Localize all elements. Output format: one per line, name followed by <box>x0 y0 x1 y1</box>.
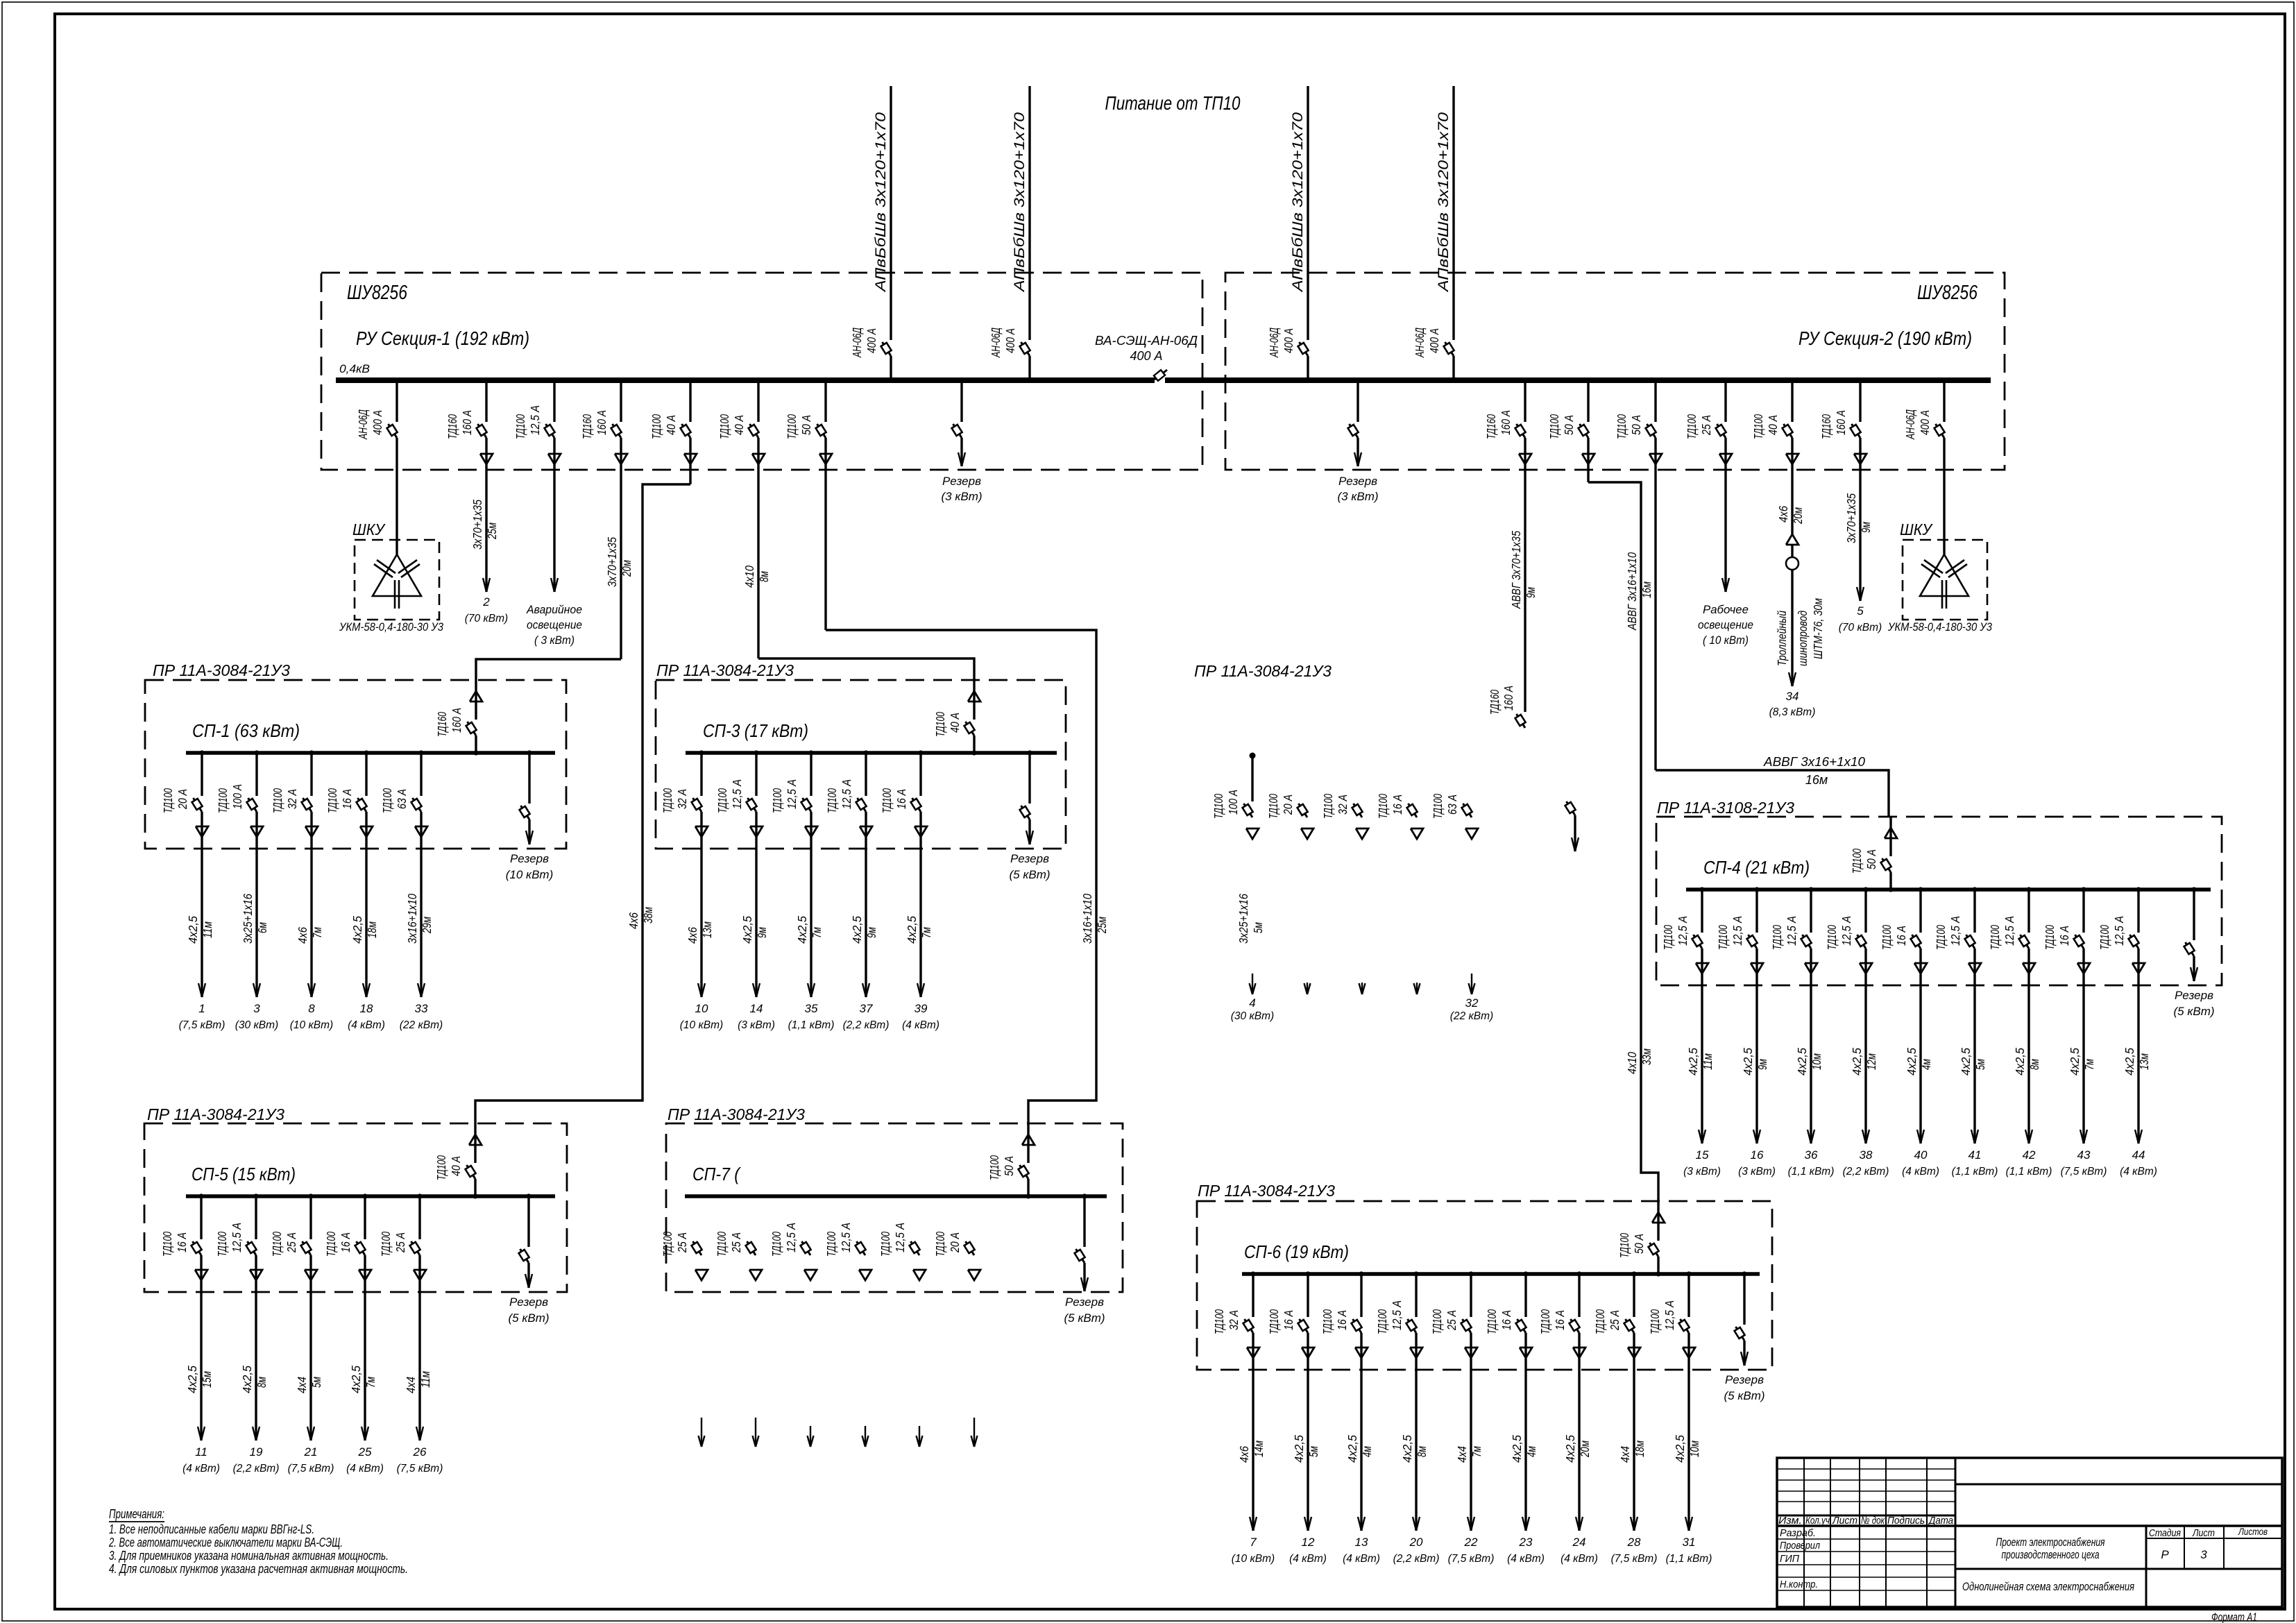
svg-text:4м: 4м <box>1919 1059 1933 1070</box>
feeder breaker ТД100 20 А load 1 СП-1 <box>161 750 208 997</box>
svg-text:12,5 А: 12,5 А <box>1390 1300 1404 1330</box>
svg-text:4х2,5: 4х2,5 <box>1686 1048 1700 1076</box>
feeder breaker ТД100 12,5 А load 38 СП-4 <box>1825 887 1872 1144</box>
svg-text:ТД100: ТД100 <box>880 788 894 813</box>
arrow load 8 <box>290 983 333 1031</box>
feeder breaker ТД100 32 А load 10 СП-3 <box>661 750 708 997</box>
svg-text:(2,2 кВт): (2,2 кВт) <box>1393 1553 1440 1565</box>
svg-text:ВА-СЭЩ-АН-06Д: ВА-СЭЩ-АН-06Д <box>1095 334 1198 348</box>
svg-text:(30 кВт): (30 кВт) <box>235 1019 278 1031</box>
svg-text:11: 11 <box>195 1445 207 1459</box>
svg-text:7м: 7м <box>1470 1446 1483 1457</box>
svg-text:3х70+1х35: 3х70+1х35 <box>1844 493 1858 543</box>
svg-text:4х10: 4х10 <box>1625 1052 1639 1074</box>
label СП-1 (63 кВт) СП-1 <box>192 720 300 741</box>
svg-text:ТД100: ТД100 <box>1648 1309 1662 1334</box>
svg-text:АН-06Д: АН-06Д <box>1267 328 1281 358</box>
svg-text:Резерв: Резерв <box>1338 475 1377 488</box>
wire to СП-1 <box>476 659 621 680</box>
svg-text:4х4: 4х4 <box>1455 1446 1469 1463</box>
cable 3х25+1х16 6м load 3 <box>241 894 269 944</box>
svg-text:ТД100: ТД100 <box>1320 1309 1334 1334</box>
svg-text:АН-06Д: АН-06Д <box>1903 409 1917 440</box>
svg-text:ТД100: ТД100 <box>987 1155 1001 1180</box>
feeder breaker ТД100 25 А load 28 СП-6 <box>1593 1271 1640 1531</box>
cable 4х4 18м load 28 <box>1618 1441 1647 1463</box>
incoming breaker ТД100 50 А СП-6 <box>1617 1201 1665 1277</box>
stub arrow СП-7 <box>862 1426 869 1447</box>
svg-text:40 А: 40 А <box>1766 415 1780 435</box>
cable 4х2,5 5м load 12 <box>1292 1435 1320 1463</box>
arrow load 18 <box>348 983 385 1031</box>
svg-text:400 А: 400 А <box>1427 328 1441 353</box>
cable 4х2,5 12м load 38 <box>1850 1048 1878 1076</box>
incoming breaker АН-06Д 400 А #1 <box>850 328 892 358</box>
svg-text:ТД100: ТД100 <box>1266 794 1280 819</box>
svg-text:4х2,5: 4х2,5 <box>1795 1048 1809 1076</box>
label СП-5 (15 кВт) СП-5 <box>192 1164 296 1184</box>
bus-tie switch ВА-СЭЩ-АН-06Д 400 А <box>1095 334 1198 381</box>
svg-text:СП-7 (: СП-7 ( <box>692 1164 741 1184</box>
arrow load 41 <box>1952 1130 1998 1178</box>
cable 4х6 20м trolley <box>1776 506 1805 525</box>
feeder breaker ТД100 16 А load 43 СП-4 <box>2043 887 2090 1144</box>
svg-text:50 А: 50 А <box>1632 1234 1646 1254</box>
feeder breaker ТД100 16 А load 12 СП-6 <box>1267 1271 1314 1531</box>
svg-text:4х2,5: 4х2,5 <box>186 916 200 944</box>
feeder breaker ТД100 12,5 А load 42 СП-4 <box>1988 887 2035 1144</box>
svg-text:32 А: 32 А <box>285 789 299 809</box>
cable 4х10 8м to СП-3 <box>742 566 771 588</box>
notes Примечания <box>108 1507 408 1576</box>
feeder breaker ТД100 12,5 А load 16 СП-4 <box>1716 887 1763 1144</box>
feeder breaker ТД100 16 А load 18 СП-1 <box>325 750 373 997</box>
svg-text:ТД100: ТД100 <box>1376 794 1390 819</box>
svg-text:ТД100: ТД100 <box>1375 1309 1389 1334</box>
incoming breaker ТД100 40 А СП-5 <box>434 1123 482 1199</box>
svg-text:освещение: освещение <box>1698 618 1753 631</box>
svg-text:25 А: 25 А <box>284 1232 298 1253</box>
cable 4х2,5 7м load 39 <box>905 916 933 944</box>
svg-text:44: 44 <box>2132 1148 2145 1162</box>
svg-text:33: 33 <box>415 1002 428 1015</box>
svg-text:ТД100: ТД100 <box>661 788 674 813</box>
svg-text:ТД160: ТД160 <box>1819 414 1833 439</box>
svg-text:12,5 А: 12,5 А <box>1663 1300 1676 1330</box>
svg-text:(70 кВт): (70 кВт) <box>1839 622 1882 634</box>
svg-text:ТД100: ТД100 <box>825 788 839 813</box>
svg-text:40 А: 40 А <box>664 415 678 435</box>
svg-text:РУ Секция-1 (192 кВт): РУ Секция-1 (192 кВт) <box>356 328 529 349</box>
section2 reserve breaker <box>1337 383 1378 503</box>
arrow load 1 <box>179 983 226 1031</box>
feeder breaker ТД100 25 А load 26 СП-5 <box>379 1193 426 1441</box>
svg-text:ГИП: ГИП <box>1780 1553 1799 1565</box>
svg-text:ТД100: ТД100 <box>1617 1233 1631 1258</box>
svg-text:3. Для приемников указана номи: 3. Для приемников указана номинальная ак… <box>109 1549 389 1563</box>
feeder breaker ТД100 16 А load 13 СП-6 <box>1320 1271 1368 1531</box>
svg-text:(3 кВт): (3 кВт) <box>1337 490 1378 503</box>
svg-text:13м: 13м <box>700 921 714 938</box>
svg-text:25: 25 <box>358 1445 372 1459</box>
svg-text:ПР 11А-3084-21У3: ПР 11А-3084-21У3 <box>1194 662 1332 680</box>
svg-text:ТД100: ТД100 <box>785 414 799 439</box>
svg-text:16 А: 16 А <box>1391 794 1404 815</box>
cable АВВГ 3х70+1х35 9м to СП-2 <box>1509 531 1538 609</box>
svg-text:Резерв: Резерв <box>1010 852 1049 865</box>
svg-text:1: 1 <box>198 1002 205 1015</box>
svg-text:16 А: 16 А <box>175 1232 189 1252</box>
svg-text:ТД100: ТД100 <box>1211 794 1225 819</box>
svg-text:4х2,5: 4х2,5 <box>240 1366 254 1393</box>
svg-text:40 А: 40 А <box>732 415 746 435</box>
svg-text:Резерв: Резерв <box>1065 1295 1104 1309</box>
arrow load 38 <box>1843 1130 1889 1178</box>
svg-text:(4 кВт): (4 кВт) <box>1561 1553 1598 1565</box>
label СП-3 (17 кВт) СП-3 <box>703 720 808 741</box>
svg-text:ТД100: ТД100 <box>1751 414 1765 439</box>
cable 4х10 33м to СП-6 <box>1625 1048 1653 1074</box>
svg-text:12,5 А: 12,5 А <box>2002 916 2016 946</box>
svg-text:50 А: 50 А <box>799 415 813 435</box>
svg-text:ТД100: ТД100 <box>160 1232 174 1257</box>
svg-text:16м: 16м <box>1640 581 1653 598</box>
svg-text:ТД100: ТД100 <box>379 1232 393 1257</box>
svg-text:4х2,5: 4х2,5 <box>185 1366 199 1393</box>
svg-text:АН-06Д: АН-06Д <box>850 328 864 358</box>
cable 4х4 5м load 21 <box>295 1377 323 1393</box>
svg-text:Кол.уч: Кол.уч <box>1805 1515 1830 1527</box>
svg-text:37: 37 <box>860 1002 873 1015</box>
svg-text:21: 21 <box>304 1445 318 1459</box>
section2 feeder breaker ТД100 40 А trolley <box>1751 383 1798 534</box>
svg-text:СП-5 (15 кВт): СП-5 (15 кВт) <box>192 1164 296 1184</box>
svg-text:ТД100: ТД100 <box>380 788 394 813</box>
svg-text:12,5 А: 12,5 А <box>784 1223 798 1252</box>
svg-text:160 А: 160 А <box>595 410 609 435</box>
svg-text:7м: 7м <box>919 927 933 938</box>
svg-text:5м: 5м <box>309 1377 323 1388</box>
svg-text:Троллейный: Троллейный <box>1775 611 1789 666</box>
svg-text:ТД100: ТД100 <box>1593 1309 1607 1334</box>
svg-text:4х2,5: 4х2,5 <box>1563 1435 1577 1463</box>
svg-text:4х2,5: 4х2,5 <box>2068 1048 2082 1076</box>
svg-text:12,5 А: 12,5 А <box>2112 916 2126 946</box>
svg-text:23: 23 <box>1519 1536 1533 1549</box>
svg-text:(3 кВт): (3 кВт) <box>941 490 982 503</box>
svg-text:ШУ8256: ШУ8256 <box>347 282 408 304</box>
feeder breaker ТД100 12,5 А load 44 СП-4 <box>2098 887 2145 1144</box>
svg-text:16 А: 16 А <box>1499 1310 1513 1330</box>
svg-text:38м: 38м <box>641 907 655 924</box>
svg-text:ТД100: ТД100 <box>1825 925 1839 950</box>
svg-text:(1,1 кВт): (1,1 кВт) <box>1666 1553 1712 1565</box>
section2 feeder breaker ТД100 50 А to СП-4 <box>1615 383 1662 770</box>
floating feeder breaker ТД100 12,5 А СП-7 <box>878 1223 926 1280</box>
arrow load 21 <box>288 1427 334 1475</box>
svg-text:40 А: 40 А <box>948 713 962 733</box>
arrow load 20 <box>1393 1517 1440 1565</box>
cable 4х2,5 13м load 44 <box>2123 1048 2151 1076</box>
svg-text:Резерв: Резерв <box>509 1295 548 1309</box>
cable 4х2,5 18м load 18 <box>350 916 379 944</box>
floating feeder breaker ТД100 63 А СП-2 <box>1431 794 1478 839</box>
svg-text:8м: 8м <box>255 1377 269 1388</box>
arrow load 16 <box>1738 1130 1776 1178</box>
svg-text:12,5 А: 12,5 А <box>785 779 799 809</box>
svg-text:7: 7 <box>1250 1536 1257 1549</box>
svg-text:ТД100: ТД100 <box>1430 1309 1444 1334</box>
svg-text:16м: 16м <box>1805 773 1828 787</box>
svg-text:Листов: Листов <box>2238 1526 2268 1537</box>
busbar 0,4кВ section 1 <box>336 377 1155 383</box>
svg-text:(7,5 кВт): (7,5 кВт) <box>288 1463 334 1475</box>
svg-text:11м: 11м <box>201 921 214 938</box>
svg-text:ТД100: ТД100 <box>1685 414 1699 439</box>
svg-text:11м: 11м <box>1701 1053 1715 1070</box>
cable 3х70+1х35 9м load 5 <box>1844 493 1873 543</box>
incoming breaker АН-06Д 400 А #2 <box>989 328 1030 358</box>
svg-text:16 А: 16 А <box>1894 926 1908 946</box>
label ПР 11А-3084-21У3 СП-7 <box>667 1105 805 1123</box>
svg-text:25 А: 25 А <box>393 1232 407 1253</box>
cable 4х6 7м load 8 <box>296 927 324 944</box>
svg-text:4х2,5: 4х2,5 <box>1292 1435 1306 1463</box>
svg-text:освещение: освещение <box>527 618 582 631</box>
arrow load 39 <box>902 983 939 1031</box>
stub arrow СП-7 <box>753 1418 759 1447</box>
svg-text:ТД100: ТД100 <box>1538 1309 1552 1334</box>
svg-text:15м: 15м <box>200 1371 214 1388</box>
svg-text:ПР 11А-3084-21У3: ПР 11А-3084-21У3 <box>1198 1182 1335 1200</box>
svg-text:Лист: Лист <box>1832 1515 1857 1527</box>
svg-text:Формат А1: Формат А1 <box>2211 1611 2257 1623</box>
feeder breaker ТД100 16 А load 40 СП-4 <box>1880 887 1927 1144</box>
cable 4х4 11м load 26 <box>404 1371 432 1393</box>
svg-text:(70 кВт): (70 кВт) <box>465 613 508 624</box>
arrow load 34 <box>1769 672 1816 718</box>
svg-text:(1,1 кВт): (1,1 кВт) <box>1788 1166 1835 1178</box>
svg-text:Рабочее: Рабочее <box>1703 603 1749 616</box>
svg-text:12,5 А: 12,5 А <box>1839 916 1853 946</box>
feeder breaker ТД100 16 А load 39 СП-3 <box>880 750 927 997</box>
feeder breaker ТД100 100 А СП-2 <box>1211 756 1259 839</box>
feeder breaker ТД100 12,5 А load 20 СП-6 <box>1375 1271 1422 1531</box>
svg-text:ТД100: ТД100 <box>215 1232 229 1257</box>
svg-text:29м: 29м <box>420 917 434 934</box>
svg-text:34: 34 <box>1786 690 1799 703</box>
svg-text:14: 14 <box>750 1002 763 1015</box>
feeder breaker ТД100 12,5 А load 15 СП-4 <box>1661 887 1708 1144</box>
svg-text:4х2,5: 4х2,5 <box>1850 1048 1864 1076</box>
svg-text:35: 35 <box>805 1002 818 1015</box>
incoming breaker ТД100 50 А СП-7 <box>987 1123 1035 1199</box>
svg-text:25м: 25м <box>1095 917 1109 934</box>
busbar СП-7 <box>685 1194 1107 1198</box>
svg-text:4х2,5: 4х2,5 <box>2013 1048 2027 1076</box>
svg-text:20 А: 20 А <box>1281 794 1295 815</box>
svg-text:Проект электроснабжения: Проект электроснабжения <box>1996 1536 2105 1549</box>
svg-text:4х2,5: 4х2,5 <box>1673 1435 1687 1463</box>
svg-text:ТД100: ТД100 <box>1661 925 1675 950</box>
svg-text:Питание от ТП10: Питание от ТП10 <box>1105 92 1241 114</box>
svg-text:10: 10 <box>695 1002 708 1015</box>
svg-text:(10 кВт): (10 кВт) <box>1232 1553 1275 1565</box>
svg-text:ТД100: ТД100 <box>878 1232 892 1257</box>
svg-text:12,5 А: 12,5 А <box>1785 916 1798 946</box>
svg-text:7м: 7м <box>810 927 824 938</box>
incoming cable АПвБбШв 3х120+1х70 #4 <box>1436 86 1454 378</box>
svg-text:4х2,5: 4х2,5 <box>350 916 364 944</box>
СП-2 incoming breaker ТД160 160 А <box>1488 686 1526 728</box>
arrow load 5 <box>1839 587 1882 634</box>
svg-text:ТД100: ТД100 <box>1267 1309 1281 1334</box>
svg-text:(5 кВт): (5 кВт) <box>508 1311 549 1325</box>
svg-text:ТД100: ТД100 <box>1716 925 1730 950</box>
svg-text:ШУ8256: ШУ8256 <box>1917 282 1978 304</box>
svg-text:(3 кВт): (3 кВт) <box>738 1019 775 1031</box>
svg-text:ТД100: ТД100 <box>717 414 731 439</box>
svg-text:ТД160: ТД160 <box>1488 690 1502 715</box>
label СП-6 (19 кВт) СП-6 <box>1244 1241 1349 1262</box>
svg-text:ТД100: ТД100 <box>216 788 230 813</box>
svg-text:3х16+1х10: 3х16+1х10 <box>1080 894 1094 944</box>
svg-text:7м: 7м <box>364 1377 377 1388</box>
cable 4х2,5 8м load 20 <box>1400 1435 1429 1463</box>
svg-text:4х2,5: 4х2,5 <box>2123 1048 2136 1076</box>
svg-text:4х6: 4х6 <box>1237 1446 1251 1463</box>
floating feeder breaker ТД100 25 А СП-7 <box>715 1232 762 1280</box>
svg-text:12,5 А: 12,5 А <box>528 405 542 435</box>
svg-text:ПР 11А-3084-21У3: ПР 11А-3084-21У3 <box>656 661 794 679</box>
svg-text:Р: Р <box>2161 1548 2169 1561</box>
svg-text:16: 16 <box>1751 1148 1764 1162</box>
label ПР 11А-3084-21У3 СП-2 <box>1194 662 1332 680</box>
svg-text:(3 кВт): (3 кВт) <box>1738 1166 1776 1178</box>
label Троллейный шинопровод ШТМ-76, 30м <box>1775 598 1825 666</box>
svg-text:50 А: 50 А <box>1864 849 1878 869</box>
svg-text:15: 15 <box>1696 1148 1709 1162</box>
svg-text:Аварийное: Аварийное <box>526 603 582 616</box>
svg-text:4. Для силовых пунктов указана: 4. Для силовых пунктов указана расчетная… <box>109 1562 408 1576</box>
svg-text:ТД100: ТД100 <box>1934 925 1948 950</box>
svg-text:Изм.: Изм. <box>1778 1515 1802 1527</box>
feeder breaker ТД100 16 А load 24 СП-6 <box>1538 1271 1585 1531</box>
svg-text:АВВГ 3х16+1х10: АВВГ 3х16+1х10 <box>1763 755 1865 769</box>
svg-text:ТД100: ТД100 <box>770 788 784 813</box>
svg-text:32 А: 32 А <box>1336 794 1350 815</box>
svg-text:ТД100: ТД100 <box>1770 925 1784 950</box>
incoming cable АПвБбШв 3х120+1х70 #1 <box>873 86 891 378</box>
floating feeder breaker ТД100 12,5 А СП-7 <box>769 1223 817 1280</box>
svg-text:400 А: 400 А <box>1282 328 1295 353</box>
arrow load 36 <box>1788 1130 1835 1178</box>
wire drop to СП-5 <box>475 484 690 1123</box>
svg-text:10м: 10м <box>1810 1053 1823 1070</box>
stub arrow СП-2 <box>1469 974 1475 994</box>
svg-text:(30 кВт): (30 кВт) <box>1231 1010 1274 1022</box>
svg-text:(4 кВт): (4 кВт) <box>2120 1166 2157 1178</box>
cable АВВГ 3х16+1х10 16м to СП-4 <box>1763 755 1865 787</box>
cable 4х4 7м load 22 <box>1455 1446 1483 1463</box>
svg-text:шинопровод: шинопровод <box>1796 611 1810 666</box>
arrow emergency lighting <box>526 578 582 647</box>
svg-text:ШТМ-76, 30м: ШТМ-76, 30м <box>1811 598 1825 659</box>
svg-text:ТД100: ТД100 <box>513 414 527 439</box>
cable 4х6 38м to СП-5 <box>627 907 655 929</box>
label 0,4кВ <box>339 363 370 375</box>
panel box СП-4 <box>1656 817 2222 985</box>
cable 4х2,5 7м load 25 <box>349 1366 377 1393</box>
svg-text:(5 кВт): (5 кВт) <box>1009 868 1050 881</box>
svg-text:10м: 10м <box>1687 1441 1701 1457</box>
cable 4х2,5 20м load 24 <box>1563 1435 1592 1463</box>
svg-text:160 А: 160 А <box>1834 410 1848 435</box>
cable 4х2,5 10м load 31 <box>1673 1435 1701 1463</box>
svg-text:ТД100: ТД100 <box>324 1232 338 1257</box>
reserve breaker СП-4 <box>2173 887 2214 1018</box>
svg-text:Проверил: Проверил <box>1780 1540 1820 1552</box>
feeder breaker ТД100 100 А load 3 СП-1 <box>216 750 263 997</box>
cable 4х2,5 5м load 41 <box>1959 1048 1987 1076</box>
svg-text:ТД100: ТД100 <box>1547 414 1561 439</box>
svg-text:400 А: 400 А <box>1918 410 1932 435</box>
incoming breaker ТД100 50 А СП-4 <box>1850 817 1897 892</box>
incoming cable АПвБбШв 3х120+1х70 #3 <box>1290 86 1308 378</box>
svg-text:4х10: 4х10 <box>742 566 756 588</box>
svg-text:4х6: 4х6 <box>296 927 309 944</box>
svg-text:Резерв: Резерв <box>1725 1373 1764 1386</box>
cable 4х6 13м load 10 <box>686 921 714 944</box>
stub arrow СП-2 <box>1414 983 1420 994</box>
feeder breaker ТД100 12,5 А load 41 СП-4 <box>1934 887 1981 1144</box>
svg-text:(2,2 кВт): (2,2 кВт) <box>233 1463 280 1475</box>
svg-text:4х2,5: 4х2,5 <box>905 916 919 944</box>
svg-text:4х4: 4х4 <box>1618 1446 1632 1463</box>
svg-text:ПР 11А-3084-21У3: ПР 11А-3084-21У3 <box>147 1105 284 1123</box>
svg-text:ШКУ: ШКУ <box>352 520 386 538</box>
svg-text:ПР 11А-3108-21У3: ПР 11А-3108-21У3 <box>1657 799 1794 817</box>
svg-text:ТД100: ТД100 <box>1485 1309 1499 1334</box>
svg-text:4х2,5: 4х2,5 <box>1741 1048 1755 1076</box>
cable 4х6 14м load 7 <box>1237 1441 1266 1463</box>
svg-text:Разраб.: Разраб. <box>1780 1527 1816 1539</box>
svg-text:400 А: 400 А <box>1003 328 1017 353</box>
label ШУ8256 section 1 <box>347 282 408 304</box>
arrow load 24 <box>1561 1517 1598 1565</box>
svg-text:АН-06Д: АН-06Д <box>1413 328 1427 358</box>
svg-text:8м: 8м <box>2027 1059 2041 1070</box>
svg-text:ТД100: ТД100 <box>649 414 663 439</box>
svg-text:7м: 7м <box>2082 1059 2096 1070</box>
svg-text:2: 2 <box>482 595 490 609</box>
feeder breaker ТД100 12,5 А load 31 СП-6 <box>1648 1271 1695 1531</box>
svg-text:12: 12 <box>1302 1536 1315 1549</box>
svg-text:3: 3 <box>2200 1548 2207 1561</box>
svg-text:ТД160: ТД160 <box>1484 414 1498 439</box>
capacitor bank УКМ right <box>1920 554 1968 609</box>
floating feeder breaker ТД100 12,5 А СП-7 <box>824 1223 871 1280</box>
svg-text:9м: 9м <box>755 927 769 938</box>
label ПР 11А-3084-21У3 СП-5 <box>147 1105 284 1123</box>
cable 3х70+1х35 20м to СП-1 <box>605 537 633 587</box>
stub arrow СП-2 <box>1359 983 1366 994</box>
svg-text:16 А: 16 А <box>1553 1310 1567 1330</box>
cable 3х25+1х16 5м СП-2 <box>1236 894 1265 944</box>
label ПР 11А-3084-21У3 СП-1 <box>153 661 290 679</box>
reserve breaker СП-6 <box>1724 1271 1764 1402</box>
svg-text:ТД100: ТД100 <box>1880 925 1894 950</box>
